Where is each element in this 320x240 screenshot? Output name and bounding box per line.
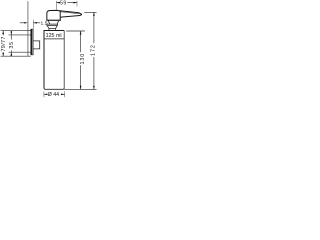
- pump head base line: [46, 19, 61, 21]
- spout mouth: [60, 12, 81, 15]
- dimension 59 top: [57, 1, 78, 10]
- svg-text:1.5: 1.5: [41, 20, 48, 26]
- holder ring edge on bottle: [44, 38, 64, 40]
- svg-text:79/77: 79/77: [1, 36, 7, 51]
- svg-text:172: 172: [90, 44, 96, 56]
- pump collar lower taper: [47, 26, 57, 31]
- wall line: [27, 1, 29, 56]
- pump head: [47, 10, 60, 20]
- dimension 79/77 left: [1, 31, 31, 57]
- dimension 15: [20, 20, 40, 29]
- svg-text:35: 35: [9, 41, 15, 48]
- svg-text:59: 59: [60, 1, 66, 7]
- svg-text:Ø 44: Ø 44: [48, 92, 59, 98]
- svg-text:125 ml: 125 ml: [46, 33, 62, 39]
- dimension diameter 44 bottom: [44, 91, 65, 97]
- pump spout: [59, 11, 82, 20]
- dimension 35 left inner: [9, 31, 31, 56]
- dimension 172 right outer: [64, 12, 96, 89]
- wall plate: [31, 29, 33, 55]
- pump collar upper taper: [48, 21, 58, 24]
- dimension 130 right inner: [66, 31, 85, 89]
- bottle: [44, 31, 64, 89]
- holder bracket: [33, 41, 40, 49]
- pump collar ring: [47, 24, 58, 25]
- svg-text:130: 130: [80, 53, 86, 65]
